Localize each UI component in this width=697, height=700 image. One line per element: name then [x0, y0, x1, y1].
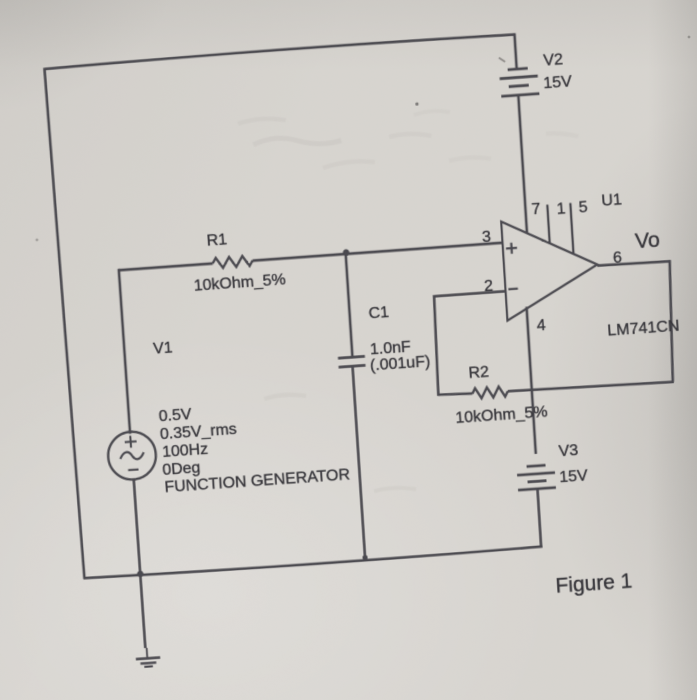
capacitor C1	[338, 356, 365, 367]
faint ghost smudge 6	[389, 132, 431, 139]
wire top rail	[44, 33, 514, 69]
V1 plus marker	[124, 435, 137, 448]
wire to R2 left	[438, 392, 472, 396]
wire output right vertical	[665, 260, 677, 382]
wire R2 to output right rail	[508, 380, 674, 394]
wire junction A down to C1	[346, 253, 353, 358]
wire bottom rail	[83, 547, 542, 580]
faint ghost smudge 9	[374, 486, 416, 492]
faint ghost smudge 4	[414, 110, 450, 115]
wire left rail	[44, 68, 84, 580]
wire op-amp pin 2 net	[435, 291, 505, 296]
junction dot C1 bottom	[362, 555, 367, 561]
V1 sine marker	[120, 451, 144, 460]
stray speck near V2	[499, 57, 505, 62]
value lines of V1	[158, 394, 350, 496]
wire V3 to bottom rail	[537, 489, 541, 548]
stray speck top right	[688, 36, 691, 39]
wire C1 to bottom rail	[353, 366, 366, 558]
stray speck upper middle	[415, 102, 418, 105]
resistor R1	[212, 255, 253, 268]
faint ghost smudge 1	[253, 134, 341, 149]
ac source V1 circle	[107, 430, 158, 481]
dc source V3	[517, 465, 556, 491]
ground symbol	[135, 647, 161, 667]
faint ghost smudge 7	[449, 156, 491, 162]
wire op-amp output pin 6	[597, 260, 670, 266]
stray speck left margin	[35, 238, 38, 241]
faint ghost smudge 5	[238, 117, 286, 123]
faint ghost smudge 8	[264, 394, 306, 399]
dc source V2	[499, 68, 539, 97]
wire V1 to ground	[134, 479, 146, 648]
resistor R2	[472, 386, 508, 399]
pin 4 stub	[527, 307, 536, 454]
wire V2 to pin 7	[518, 94, 527, 233]
junction dot node A	[343, 249, 350, 256]
wire left inner vertical to V1	[119, 269, 130, 434]
wire pin3 input net left segment	[119, 263, 213, 270]
wire V2 top stub	[514, 33, 516, 70]
junction dot V1 bottom rail	[137, 571, 144, 578]
value of C1	[368, 336, 430, 374]
pin 1 stub	[547, 205, 549, 244]
wire pin2 corner down to R2	[432, 295, 441, 396]
op-amp U1 triangle	[501, 215, 600, 321]
V1 minus marker	[128, 468, 138, 471]
faint ghost smudge 3	[546, 131, 578, 138]
wire R1 to op-amp pin 3	[253, 243, 503, 261]
faint ghost smudge 2	[323, 160, 375, 168]
pin 5 stub	[570, 203, 573, 254]
op-amp minus input marker	[508, 287, 517, 290]
op-amp plus input marker	[506, 242, 518, 254]
